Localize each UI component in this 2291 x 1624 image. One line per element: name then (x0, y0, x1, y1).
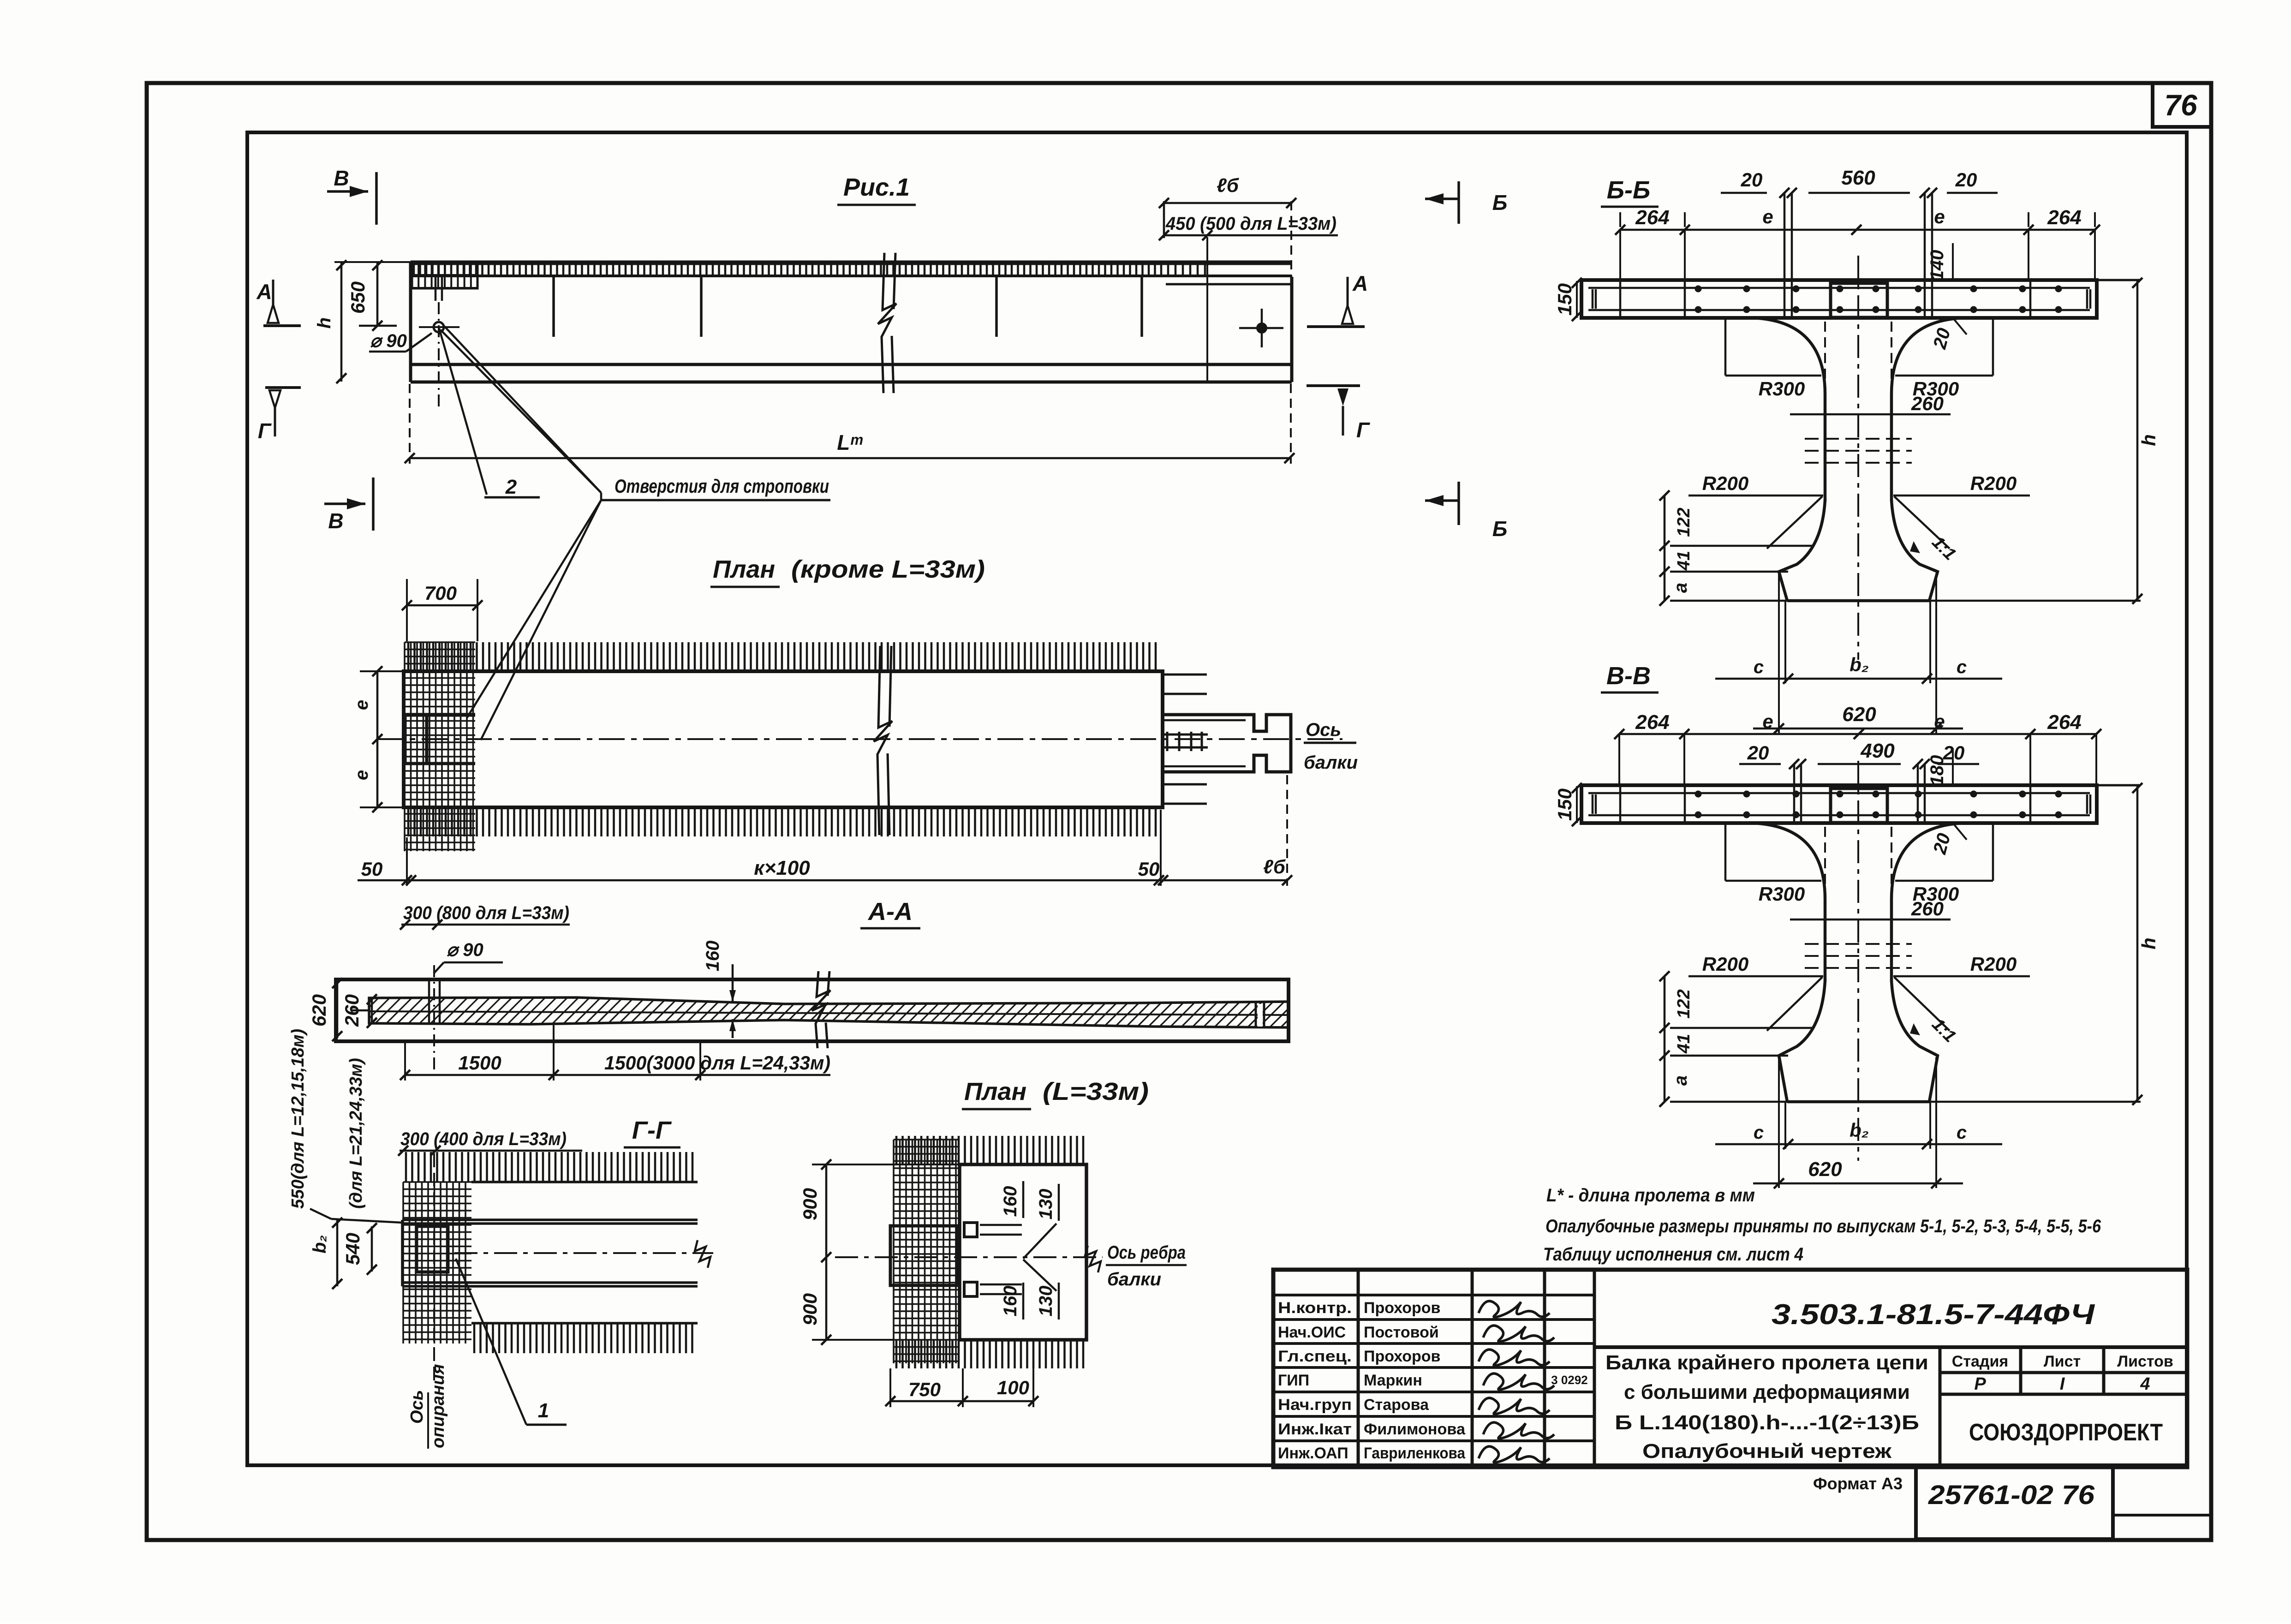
svg-text:⌀ 90: ⌀ 90 (447, 940, 483, 960)
svg-text:c: c (1754, 657, 1764, 677)
Б-Б haunch diagonals (1767, 496, 1822, 549)
plan end bracket element (1163, 715, 1291, 772)
svg-text:130: 130 (1036, 1286, 1056, 1317)
Б-Б haunch level lines (1670, 545, 1813, 547)
A-A washer slot right (1256, 1003, 1264, 1028)
В-В flange inner lines (1588, 792, 2090, 794)
plan top comb (408, 642, 1156, 671)
В-В dim c b2 c (1715, 1143, 2002, 1146)
В-В haunch diagonals (1767, 977, 1822, 1031)
plan bottom comb (408, 807, 1156, 836)
beam top rebar comb band (412, 263, 1165, 265)
В-В 260 line (1790, 919, 1951, 921)
svg-text:h: h (314, 317, 334, 328)
svg-text:e: e (1762, 710, 1773, 732)
break symbol Рис.1 (878, 253, 896, 393)
Б-Б web with R300 fillets (1752, 318, 1825, 501)
В-В flange end anchors (1593, 794, 2090, 814)
A-A outline (336, 979, 1289, 1041)
plan centerline (377, 738, 1342, 740)
svg-text:b₂: b₂ (1850, 1119, 1869, 1141)
svg-text:540: 540 (342, 1233, 364, 1265)
svg-text:41: 41 (1674, 1034, 1694, 1054)
svg-text:Р: Р (1974, 1374, 1986, 1394)
stirrup ticks (554, 277, 1142, 337)
svg-text:620: 620 (308, 994, 330, 1027)
svg-text:b₂: b₂ (1850, 654, 1869, 675)
В-В haunch level lines (1670, 1027, 1813, 1029)
doc number cell divider (1594, 1345, 2187, 1349)
section marker Г (right) (1307, 384, 1360, 387)
Б-Б 260 line (1790, 413, 1951, 416)
Г-Г body outline (402, 1182, 698, 1323)
bottom strip: 25761-02 76 box (1916, 1465, 2113, 1539)
В-В centerline (1857, 761, 1859, 1161)
leaders 130 to centerline (1023, 1224, 1056, 1259)
svg-text:3.503.1-81.5-7-44ФЧ: 3.503.1-81.5-7-44ФЧ (1772, 1299, 2095, 1331)
Б-Б R300 labels (1724, 318, 1727, 376)
svg-text:R200: R200 (1702, 953, 1748, 975)
svg-text:c: c (1957, 657, 1967, 677)
svg-text:260: 260 (341, 994, 363, 1027)
dim 620 (A-A left) (336, 980, 339, 1038)
svg-text:Балка крайнего пролета цепи: Балка крайнего пролета цепи (1605, 1351, 1928, 1374)
В-В web break dashes (1805, 944, 1912, 968)
svg-text:c: c (1957, 1122, 1967, 1143)
strop hole right (cross) (1239, 327, 1283, 329)
svg-text:130: 130 (1036, 1189, 1056, 1220)
bottom strip right cell (2113, 1514, 2211, 1517)
svg-text:Гавриленкова: Гавриленкова (1364, 1445, 1466, 1462)
Б-Б flange slab (1581, 280, 2097, 318)
beam elevation outline (411, 262, 1292, 382)
svg-text:Нач.ОИС: Нач.ОИС (1278, 1324, 1346, 1341)
svg-text:План: План (964, 1078, 1026, 1105)
В-В R200 labels (1688, 975, 1823, 978)
plan mesh center band (405, 714, 475, 717)
svg-text:Г: Г (1356, 418, 1370, 442)
svg-text:R300: R300 (1759, 883, 1805, 905)
stadia/list cells (1940, 1347, 2187, 1467)
strop hole left (∅90) (434, 322, 444, 332)
svg-text:Постовой: Постовой (1364, 1324, 1439, 1341)
plan33 top comb (896, 1136, 1083, 1164)
svg-text:50: 50 (361, 858, 383, 880)
В-В dim h (2136, 785, 2139, 1102)
svg-text:Ось ребра: Ось ребра (1107, 1242, 1186, 1263)
Б-Б rebar dots (1695, 286, 1702, 293)
leader fan lines to strop holes (441, 330, 601, 493)
Г-Г break (small) (695, 1240, 710, 1268)
svg-text:Филимонова: Филимонова (1364, 1421, 1466, 1438)
svg-text:1500: 1500 (458, 1052, 501, 1074)
svg-text:Прохоров: Прохоров (1364, 1348, 1440, 1365)
svg-text:В-В: В-В (1606, 662, 1651, 690)
Б-Б dim 122/41/a (1664, 496, 1666, 601)
svg-text:Г: Г (258, 419, 272, 443)
svg-text:1500(3000 для L=24,33м): 1500(3000 для L=24,33м) (604, 1052, 830, 1074)
svg-text:А-А: А-А (867, 898, 913, 925)
svg-text:R200: R200 (1970, 953, 2017, 975)
svg-text:160: 160 (1000, 1286, 1020, 1317)
svg-text:264: 264 (2047, 206, 2081, 229)
svg-text:Б: Б (1492, 517, 1508, 541)
В-В bottom bulb (1779, 981, 1825, 1102)
plan33 mesh block (894, 1140, 960, 1363)
svg-text:А: А (1352, 271, 1368, 295)
svg-text:300 (400 для L=33м): 300 (400 для L=33м) (400, 1129, 567, 1149)
Б-Б web dashed projections (1824, 322, 1826, 391)
Б-Б flange end anchors (1593, 289, 2090, 309)
svg-text:Старова: Старова (1364, 1396, 1429, 1414)
svg-text:1: 1 (538, 1399, 549, 1422)
svg-text:e: e (1934, 206, 1945, 227)
dim 1500 / 1500(3000 для L=24,33м) (405, 1074, 700, 1076)
svg-text:Инж.ОАП: Инж.ОАП (1278, 1445, 1348, 1462)
svg-text:264: 264 (1635, 206, 1669, 229)
svg-text:⌀ 90: ⌀ 90 (370, 331, 407, 351)
svg-text:План: План (713, 555, 775, 583)
svg-text:264: 264 (2047, 711, 2081, 734)
svg-text:c: c (1754, 1122, 1764, 1143)
svg-text:450 (500 для L=33м): 450 (500 для L=33м) (1165, 214, 1336, 234)
svg-text:ГИП: ГИП (1278, 1372, 1309, 1389)
svg-text:опирания: опирания (429, 1364, 448, 1448)
Ось опирания dashed axis (433, 1153, 435, 1382)
dim 540 (Г-Г) (371, 1226, 373, 1272)
svg-text:122: 122 (1674, 989, 1694, 1018)
svg-text:750: 750 (908, 1379, 941, 1400)
svg-text:Н.контр.: Н.контр. (1278, 1299, 1352, 1317)
svg-text:Б L.140(180).h-...-1(2÷13)Б: Б L.140(180).h-...-1(2÷13)Б (1615, 1411, 1919, 1434)
svg-text:e: e (352, 770, 372, 780)
svg-text:Стадия: Стадия (1952, 1353, 2008, 1370)
dim 260 (A-A left) (371, 998, 373, 1024)
plan break (874, 646, 892, 835)
dim 50 kx100 50 lb (358, 879, 1287, 882)
svg-text:e: e (352, 700, 372, 710)
Б-Б centerline (1857, 256, 1859, 660)
A-A break (812, 971, 830, 1048)
svg-text:b₂: b₂ (310, 1235, 330, 1254)
svg-text:балки: балки (1107, 1269, 1161, 1290)
svg-text:900: 900 (799, 1293, 821, 1325)
section marker Б (bottom) (1457, 482, 1460, 525)
svg-text:25761-02 76: 25761-02 76 (1928, 1480, 2095, 1510)
svg-text:100: 100 (997, 1377, 1029, 1398)
A-A band left arrow (352, 1009, 369, 1012)
svg-text:СОЮЗДОРПРОЕКТ: СОЮЗДОРПРОЕКТ (1969, 1419, 2163, 1446)
svg-text:Лист: Лист (2044, 1353, 2081, 1370)
Г-Г bearing plate (417, 1226, 448, 1272)
svg-text:Опалубочные размеры приняты по: Опалубочные размеры приняты по выпускам … (1545, 1216, 2101, 1236)
svg-text:4: 4 (2140, 1374, 2150, 1394)
A-A band mid line (369, 1011, 1289, 1015)
plan33 hole lines (980, 1225, 1022, 1294)
svg-text:122: 122 (1674, 507, 1694, 537)
В-В R300 labels (1724, 823, 1727, 881)
title block rows (left part) (1273, 1295, 1594, 1441)
В-В dim 122/41/a (1664, 976, 1666, 1102)
В-В dim 620 (1753, 1182, 1963, 1185)
В-В web with R300 fillets (1752, 823, 1825, 982)
A-A hatched band (369, 997, 1289, 1027)
svg-text:300 (800 для L=33м): 300 (800 для L=33м) (403, 903, 569, 923)
leader lines to plan holes (467, 500, 601, 718)
svg-text:160: 160 (703, 941, 723, 972)
plan33 hole squares (964, 1223, 977, 1237)
plan right end protruding bars (1163, 675, 1207, 804)
svg-text:h: h (2138, 434, 2160, 446)
svg-text:900: 900 (799, 1188, 821, 1220)
plan end rebar ladder (1163, 732, 1208, 751)
inner drawing frame (247, 132, 2187, 1465)
svg-text:Lᵐ: Lᵐ (837, 430, 863, 454)
svg-text:R200: R200 (1970, 472, 2017, 494)
plan33 mesh center band (890, 1226, 958, 1285)
Б-Б dim extension lines (1620, 212, 2095, 280)
svg-text:В: В (334, 166, 349, 190)
Б-Б dim 620 (1753, 728, 1963, 730)
title block columns (left part) (1358, 1270, 1594, 1467)
plan left mesh block (405, 642, 475, 851)
Б-Б dim h (2136, 280, 2139, 601)
svg-text:Прохоров: Прохоров (1364, 1299, 1440, 1317)
В-В central embed plate (1831, 788, 1887, 823)
svg-text:Отверстия для строповки: Отверстия для строповки (615, 475, 829, 497)
svg-text:700: 700 (424, 582, 457, 604)
Б-Б bottom bulb (1779, 500, 1825, 601)
Г-Г top comb (406, 1152, 692, 1182)
svg-text:балки: балки (1304, 752, 1358, 773)
svg-text:20: 20 (1747, 742, 1769, 764)
svg-text:Формат А3: Формат А3 (1813, 1474, 1903, 1493)
svg-text:Г-Г: Г-Г (632, 1116, 672, 1144)
plan33 break (1085, 1246, 1101, 1272)
svg-text:Ось: Ось (1306, 720, 1341, 740)
title block outer (1273, 1270, 2187, 1467)
svg-text:260: 260 (1911, 898, 1944, 919)
Г-Г centerline (454, 1252, 713, 1254)
section marker Г (left) (265, 386, 301, 389)
lowered shelf at right end (1165, 263, 1292, 265)
svg-text:a: a (1671, 1075, 1691, 1086)
svg-text:R300: R300 (1759, 378, 1805, 400)
svg-text:(L=33м): (L=33м) (1043, 1078, 1149, 1105)
svg-text:к×100: к×100 (754, 857, 810, 879)
svg-text:20: 20 (1741, 169, 1763, 191)
plan body outline (404, 671, 1163, 807)
label 1 with leader (456, 1259, 526, 1425)
A-A hole lines (428, 979, 430, 1024)
Б-Б R200 labels (1688, 495, 1823, 497)
svg-text:550(для L=12,15,18м): 550(для L=12,15,18м) (288, 1029, 308, 1209)
Г-Г bottom comb (474, 1323, 692, 1353)
svg-text:Маркин: Маркин (1364, 1372, 1422, 1389)
plan33 body outline (960, 1164, 1086, 1340)
Г-Г left mesh block (403, 1182, 471, 1343)
svg-text:(кроме L=33м): (кроме L=33м) (791, 555, 985, 583)
svg-text:Нач.груп: Нач.груп (1278, 1396, 1352, 1414)
svg-text:50: 50 (1138, 858, 1160, 880)
dim 650 (376, 262, 379, 326)
section marker Б (top) (1457, 181, 1460, 224)
dim h (left) (340, 262, 343, 382)
svg-text:Гл.спец.: Гл.спец. (1278, 1348, 1352, 1365)
В-В flange slab (1581, 785, 2097, 823)
svg-text:20: 20 (1955, 169, 1977, 191)
beam end anchor block (left) (412, 262, 477, 288)
signatures (1479, 1301, 1550, 1317)
В-В slot embed lines (1794, 764, 1925, 823)
svg-text:2: 2 (505, 476, 517, 498)
svg-text:490: 490 (1860, 740, 1895, 762)
svg-text:ℓб: ℓб (1263, 856, 1286, 878)
svg-text:Листов: Листов (2117, 1353, 2173, 1370)
svg-text:Инж.Iкат: Инж.Iкат (1278, 1421, 1352, 1438)
dim e e (left) (376, 671, 379, 807)
svg-text:a: a (1671, 583, 1691, 593)
svg-text:e: e (1762, 206, 1773, 227)
svg-text:180: 180 (1927, 755, 1947, 786)
Б-Б web break dashes (1805, 439, 1912, 463)
svg-text:Б-Б: Б-Б (1607, 176, 1650, 204)
svg-text:Таблицу исполнения см. лист 4: Таблицу исполнения см. лист 4 (1543, 1244, 1803, 1265)
plan33 dims 750/100 (890, 1400, 1033, 1403)
dim b2 (Г-Г) (336, 1220, 339, 1286)
svg-text:e: e (1934, 710, 1945, 732)
svg-text:Б: Б (1492, 191, 1508, 215)
svg-text:76: 76 (2164, 89, 2197, 122)
svg-text:I: I (2060, 1374, 2065, 1394)
plan33 bottom comb (896, 1340, 1083, 1368)
svg-text:ℓб: ℓб (1217, 174, 1239, 196)
plan33 centerline (835, 1256, 1103, 1258)
svg-text:А: А (256, 280, 272, 304)
svg-text:160: 160 (1000, 1186, 1020, 1217)
Б-Б flange inner lines (1588, 287, 2090, 289)
svg-text:В: В (328, 509, 343, 533)
plan33 dim 900/900 (825, 1164, 828, 1340)
Б-Б slot embed lines (1784, 193, 1932, 318)
svg-text:3 0292: 3 0292 (1551, 1373, 1588, 1387)
В-В web dashed projections (1824, 827, 1826, 896)
svg-text:620: 620 (1842, 703, 1876, 726)
В-В rebar dots (1695, 791, 1702, 798)
svg-text:h: h (2138, 937, 2160, 949)
svg-text:R200: R200 (1702, 472, 1748, 494)
svg-text:620: 620 (1808, 1158, 1842, 1181)
Б-Б dim c b2 c (1715, 678, 2002, 680)
svg-text:с большими деформациями: с большими деформациями (1624, 1381, 1910, 1403)
Б-Б central embed plate (1831, 283, 1887, 317)
svg-text:260: 260 (1911, 393, 1944, 414)
svg-text:L* - длина пролета в мм: L* - длина пролета в мм (1546, 1185, 1755, 1206)
svg-text:Рис.1: Рис.1 (843, 173, 910, 201)
svg-text:41: 41 (1674, 551, 1694, 571)
svg-text:Опалубочный чертеж: Опалубочный чертеж (1642, 1440, 1892, 1463)
svg-text:560: 560 (1841, 167, 1875, 189)
svg-text:Ось: Ось (407, 1390, 427, 1424)
svg-text:264: 264 (1635, 711, 1669, 734)
svg-text:(для L=21,24,33м): (для L=21,24,33м) (346, 1058, 366, 1209)
svg-text:140: 140 (1927, 250, 1947, 281)
dim L^м (410, 457, 1289, 460)
page number box 76 (2153, 83, 2211, 127)
svg-text:650: 650 (347, 281, 369, 314)
